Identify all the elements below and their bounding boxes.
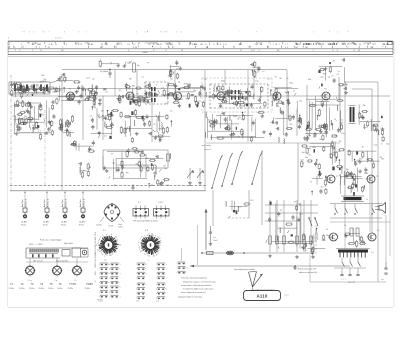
svg-text:xx xxx: xx xxx: [98, 301, 103, 303]
svg-text:a-k: a-k: [104, 260, 107, 262]
svg-text:0,1: 0,1: [268, 79, 271, 81]
svg-text:21-85a: 21-85a: [57, 288, 62, 290]
svg-text:12: 12: [148, 256, 150, 258]
svg-text:2n: 2n: [231, 103, 233, 105]
svg-text:2: 2: [85, 32, 86, 34]
svg-text:15p: 15p: [52, 92, 55, 94]
svg-text:6: 6: [145, 32, 146, 34]
svg-text:Rg: Rg: [193, 90, 195, 92]
svg-text:538/5e: 538/5e: [118, 227, 123, 229]
svg-text:A110: A110: [257, 294, 268, 299]
svg-text:72: 72: [21, 282, 24, 286]
svg-text:4: 4: [44, 32, 45, 34]
svg-text:JZ-AN: JZ-AN: [43, 221, 49, 224]
svg-text:8: 8: [99, 239, 100, 241]
svg-text:100k: 100k: [221, 81, 225, 83]
svg-text:8: 8: [160, 245, 161, 247]
svg-text:4: 4: [111, 234, 112, 236]
svg-text:4: 4: [112, 254, 113, 256]
svg-text:6: 6: [33, 32, 34, 34]
svg-text:Tr: Tr: [366, 198, 368, 201]
svg-text:6: 6: [29, 32, 30, 34]
svg-text:5: 5: [120, 296, 121, 298]
svg-text:1: 1: [146, 293, 147, 295]
svg-text:4k7: 4k7: [168, 75, 171, 77]
svg-text:2: 2: [146, 264, 147, 266]
svg-text:C14: C14: [374, 145, 377, 147]
svg-text:100k: 100k: [289, 83, 293, 85]
svg-text:2M: 2M: [345, 85, 348, 87]
svg-text:1: 1: [166, 269, 167, 271]
svg-text:12-956: 12-956: [96, 225, 102, 227]
svg-text:8: 8: [160, 242, 161, 244]
svg-text:0,1: 0,1: [141, 76, 144, 78]
svg-text:7: 7: [144, 236, 145, 238]
svg-text:5: 5: [96, 245, 97, 247]
svg-text:12: 12: [144, 253, 146, 255]
svg-text:EFUNKEN: EFUNKEN: [95, 252, 97, 261]
svg-text:15p: 15p: [363, 127, 366, 129]
svg-text:8: 8: [256, 32, 257, 34]
svg-text:C9: C9: [294, 202, 296, 204]
svg-text:3p: 3p: [83, 170, 85, 172]
svg-text:Rb: Rb: [129, 78, 131, 80]
svg-text:arwtg 40: arwtg 40: [204, 148, 211, 151]
svg-text:Cg: Cg: [328, 76, 330, 78]
svg-text:11: 11: [156, 254, 158, 256]
svg-text:Ant Zwis: Ant Zwis: [43, 199, 46, 207]
svg-text:11: 11: [140, 251, 142, 253]
svg-text:0,5: 0,5: [33, 84, 36, 86]
svg-text:1n: 1n: [15, 123, 17, 125]
svg-text:R2: R2: [333, 60, 335, 62]
svg-text:Ck: Ck: [280, 210, 282, 212]
svg-text:10n: 10n: [229, 95, 232, 97]
svg-text:2: 2: [166, 278, 167, 280]
svg-text:6: 6: [120, 287, 121, 289]
svg-text:15p: 15p: [386, 143, 389, 145]
svg-text:4: 4: [100, 237, 101, 239]
svg-text:7: 7: [147, 255, 148, 257]
svg-text:21-85a: 21-85a: [39, 288, 44, 290]
svg-text:9: 9: [141, 236, 142, 238]
svg-text:6k8: 6k8: [41, 81, 44, 83]
svg-text:R2: R2: [17, 90, 19, 92]
svg-text:75: 75: [50, 282, 53, 286]
svg-text:Pored pri nastavovanj [priat]: Pored pri nastavovanj [priat]: [181, 277, 207, 280]
svg-text:Ck: Ck: [225, 99, 227, 101]
svg-text:R2: R2: [234, 97, 236, 99]
svg-text:3: 3: [155, 236, 156, 238]
svg-text:xxx: xxx: [381, 279, 384, 281]
svg-text:1n: 1n: [293, 90, 295, 92]
svg-text:Ck: Ck: [153, 124, 155, 126]
svg-text:1: 1: [138, 245, 139, 247]
svg-text:Rb: Rb: [279, 78, 281, 80]
svg-text:MW-TELE: MW-TELE: [95, 231, 97, 240]
svg-text:5k: 5k: [275, 76, 277, 78]
svg-text:JT-X56: JT-X56: [108, 226, 113, 228]
svg-text:12: 12: [109, 255, 111, 257]
svg-text:1n: 1n: [176, 68, 178, 70]
svg-text:87-66: 87-66: [79, 225, 84, 227]
svg-text:0,5: 0,5: [337, 74, 340, 76]
svg-text:W2: W2: [359, 159, 362, 161]
svg-text:4: 4: [162, 32, 163, 34]
svg-text:12: 12: [119, 244, 121, 246]
svg-text:10n: 10n: [170, 79, 173, 81]
svg-text:2: 2: [139, 247, 140, 249]
svg-text:7: 7: [102, 235, 103, 237]
svg-text:21-85a: 21-85a: [9, 288, 14, 290]
svg-text:5k: 5k: [204, 79, 206, 81]
svg-text:C21: C21: [161, 87, 165, 89]
svg-text:2: 2: [120, 273, 121, 275]
svg-text:21-85a: 21-85a: [19, 288, 24, 290]
svg-text:7: 7: [104, 256, 105, 258]
svg-text:2: 2: [118, 247, 119, 249]
svg-text:C21: C21: [86, 78, 89, 80]
svg-text:77/78: 77/78: [69, 282, 76, 286]
svg-text:2: 2: [117, 240, 118, 242]
svg-text:79/80: 79/80: [86, 282, 93, 286]
svg-text:Ant Zwis: Ant Zwis: [21, 199, 24, 207]
svg-text:TDF pwmwvig (HXBY all spwts): TDF pwmwvig (HXBY all spwts): [133, 220, 158, 223]
svg-text:21-85a: 21-85a: [29, 288, 34, 290]
svg-text:3: 3: [120, 264, 121, 266]
svg-text:W2: W2: [381, 158, 384, 160]
svg-text:5: 5: [313, 32, 314, 34]
svg-text:x xx: x xx: [156, 301, 159, 303]
svg-text:Cp: Cp: [55, 280, 57, 282]
svg-text:87-66: 87-66: [43, 225, 48, 227]
svg-text:3p: 3p: [362, 147, 364, 149]
svg-text:C21: C21: [289, 124, 292, 126]
svg-text:76: 76: [59, 282, 62, 286]
svg-text:6k8: 6k8: [41, 75, 44, 77]
svg-text:Cg: Cg: [178, 82, 180, 84]
svg-text:0,1: 0,1: [105, 92, 108, 94]
svg-text:x xx: x xx: [136, 301, 139, 303]
svg-text:Rg: Rg: [346, 169, 348, 171]
svg-text:Cg 100pF: Cg 100pF: [100, 71, 109, 73]
svg-text:Ant Zwis: Ant Zwis: [79, 199, 82, 207]
svg-text:4: 4: [136, 32, 137, 34]
svg-text:C9: C9: [187, 86, 189, 88]
svg-text:0: 0: [181, 32, 182, 34]
svg-text:15p: 15p: [305, 157, 308, 159]
svg-text:0,1: 0,1: [304, 140, 307, 142]
svg-text:2, Lg: 2, Lg: [28, 280, 32, 282]
svg-text:73: 73: [31, 282, 34, 286]
svg-text:0: 0: [176, 32, 177, 34]
svg-text:5k: 5k: [111, 154, 113, 156]
svg-text:6: 6: [166, 264, 167, 266]
svg-text:2.5/ 6.3: 2.5/ 6.3: [55, 38, 61, 40]
svg-text:rg: rg: [147, 61, 149, 64]
svg-text:xxv xx: xxv xx: [284, 295, 289, 297]
svg-text:DKS →→ FDKT: DKS →→ FDKT: [29, 244, 44, 246]
svg-text:Nylon Matt: Nylon Matt: [64, 242, 73, 245]
svg-text:meni(21%) vfdjkmsi pri odtsran: meni(21%) vfdjkmsi pri odtsraneji: [183, 288, 214, 291]
svg-text:Cg: Cg: [148, 84, 150, 86]
svg-text:87-66: 87-66: [61, 225, 66, 227]
svg-text:3: 3: [79, 32, 80, 34]
svg-text:3p: 3p: [92, 79, 94, 81]
svg-text:R2: R2: [137, 94, 139, 96]
svg-text:UNKEN: UNKEN: [95, 261, 97, 268]
svg-text:7: 7: [166, 289, 167, 291]
svg-text:Buchse kl: Buchse kl: [66, 198, 68, 207]
svg-text:R17: R17: [323, 73, 326, 75]
svg-text:50p: 50p: [320, 76, 323, 78]
svg-text:0,1: 0,1: [258, 97, 261, 99]
svg-text:0: 0: [337, 32, 338, 34]
svg-text:R2: R2: [76, 91, 78, 93]
svg-text:R17: R17: [186, 99, 189, 101]
svg-text:100k: 100k: [321, 240, 325, 242]
svg-text:Jote odpored prevodov: Jote odpored prevodov: [234, 268, 256, 271]
svg-text:15p: 15p: [255, 80, 258, 82]
svg-text:9: 9: [187, 268, 188, 270]
svg-text:C14: C14: [329, 238, 332, 240]
svg-text:Buchse kl: Buchse kl: [48, 198, 50, 207]
svg-text:amll andig: amll andig: [202, 145, 211, 147]
svg-text:2n: 2n: [319, 139, 321, 141]
svg-text:8: 8: [106, 234, 107, 236]
svg-text:8: 8: [98, 243, 99, 245]
svg-text:5: 5: [140, 238, 141, 240]
svg-text:Funk ans : lamp Dlagte: Funk ans : lamp Dlagte: [40, 239, 62, 242]
svg-text:Utrid do varke pre OTF: Utrid do varke pre OTF: [297, 268, 317, 271]
svg-text:JZ-AN: JZ-AN: [79, 221, 85, 224]
svg-text:0,5: 0,5: [198, 101, 201, 103]
svg-text:12: 12: [97, 249, 99, 251]
svg-text:7: 7: [116, 251, 117, 253]
svg-text:2M: 2M: [88, 167, 91, 169]
svg-text:Ant Zwis: Ant Zwis: [61, 199, 64, 207]
svg-text:C6: C6: [146, 100, 148, 102]
svg-text:10n: 10n: [364, 173, 367, 175]
svg-text:anttenndom i dfkazdnegszeirdst: anttenndom i dfkazdnegszeirdstei: [181, 284, 212, 287]
svg-text:S II: S II: [145, 230, 148, 232]
svg-text:Rg: Rg: [285, 92, 287, 94]
svg-text:6k8: 6k8: [308, 79, 311, 81]
svg-text:7: 7: [22, 32, 23, 34]
svg-text:Magnetka napaja s menovanim na: Magnetka napaja s menovanim nap.: [183, 281, 216, 284]
svg-text:Cg: Cg: [165, 103, 168, 105]
svg-text:JZ-AN: JZ-AN: [61, 221, 67, 224]
svg-text:6: 6: [98, 241, 99, 243]
svg-text:5: 5: [159, 249, 160, 251]
svg-text:50p: 50p: [302, 152, 305, 154]
svg-text:2M: 2M: [363, 105, 366, 107]
svg-text:Rg: Rg: [137, 65, 139, 67]
svg-text:100k: 100k: [312, 147, 316, 149]
svg-text:12: 12: [153, 256, 155, 258]
svg-text:3: 3: [158, 253, 159, 255]
svg-text:4k7: 4k7: [321, 187, 324, 189]
svg-text:21-85a: 21-85a: [48, 288, 53, 290]
svg-text:3: 3: [107, 255, 108, 257]
svg-text:Buchse kl: Buchse kl: [84, 198, 86, 207]
svg-text:R17: R17: [162, 94, 165, 96]
svg-text:3p: 3p: [219, 92, 221, 94]
svg-text:R9: R9: [119, 90, 121, 92]
svg-text:JZ-AN: JZ-AN: [21, 221, 27, 224]
svg-text:2M: 2M: [93, 107, 96, 109]
svg-text:kontr. odprenih prvnimkrvj.): kontr. odprenih prvnimkrvj.): [181, 291, 206, 294]
svg-text:74: 74: [40, 282, 43, 286]
svg-text:T4: T4: [78, 82, 80, 84]
svg-text:8: 8: [64, 32, 65, 34]
svg-text:21-85a: 21-85a: [68, 288, 73, 290]
svg-text:71: 71: [10, 282, 13, 286]
svg-text:50p: 50p: [337, 151, 340, 153]
svg-text:2: 2: [146, 273, 147, 275]
svg-text:21-85a: 21-85a: [85, 288, 90, 290]
svg-text:87-66: 87-66: [21, 225, 26, 227]
svg-text:T-v: T-v: [371, 252, 374, 254]
svg-text:4k7: 4k7: [180, 99, 183, 101]
svg-text:Ck: Ck: [331, 76, 333, 78]
svg-text:Cn: Cn: [262, 71, 264, 73]
svg-text:12: 12: [99, 251, 101, 253]
svg-text:0,1: 0,1: [90, 116, 93, 118]
svg-text:Buchse kl: Buchse kl: [26, 198, 28, 207]
svg-text:100k: 100k: [38, 113, 42, 115]
svg-text:T4: T4: [310, 182, 312, 184]
svg-text:48V 6,3V: 48V 6,3V: [348, 282, 356, 284]
svg-text:Rg: Rg: [243, 100, 246, 102]
svg-text:6: 6: [153, 235, 154, 237]
svg-text:odpajanii dytle vn mmerqvi: odpajanii dytle vn mmerqvi: [178, 296, 203, 299]
svg-text:a: a: [148, 260, 149, 262]
svg-text:8: 8: [102, 254, 103, 256]
svg-text:5: 5: [149, 233, 150, 235]
svg-text:odtiascar dyn wahl Ig: odtiascar dyn wahl Ig: [299, 271, 317, 274]
svg-text:4: 4: [138, 242, 139, 244]
svg-text:Cg: Cg: [60, 81, 62, 83]
svg-text:5k: 5k: [302, 163, 304, 165]
svg-text:10: 10: [147, 235, 149, 237]
svg-text:5: 5: [239, 32, 240, 34]
svg-text:Ck: Ck: [170, 111, 172, 113]
svg-text:3p: 3p: [31, 121, 33, 123]
svg-text:2n: 2n: [287, 78, 289, 80]
svg-text:9: 9: [165, 32, 166, 34]
svg-text:Rb: Rb: [311, 237, 313, 239]
svg-text:24961: 24961: [142, 52, 149, 54]
